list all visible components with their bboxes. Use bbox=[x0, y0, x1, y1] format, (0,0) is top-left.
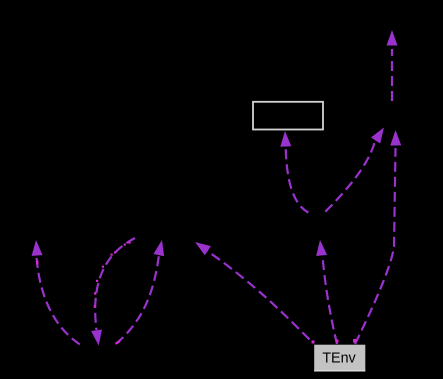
svg-text:TEnv: TEnv bbox=[322, 351, 356, 367]
